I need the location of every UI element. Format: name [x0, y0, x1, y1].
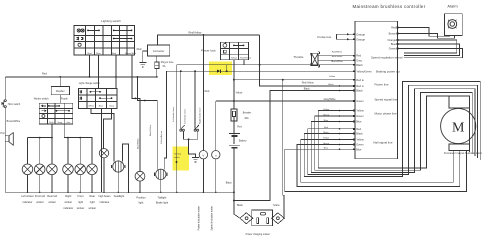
wire controller Black to battery minus	[234, 91, 355, 201]
junction controller black return	[233, 200, 235, 202]
wire hall Yellow	[301, 139, 453, 182]
svg-text:Mainstream brushless controlle: Mainstream brushless controller	[352, 4, 425, 9]
svg-text:Blue: Blue	[324, 148, 329, 150]
controller right pin squares	[397, 27, 399, 50]
brake lever switch S6 right	[194, 71, 199, 139]
wire charging socket feed	[283, 80, 284, 218]
svg-text:Yellow: Yellow	[231, 57, 238, 59]
wire high beam lamp to ground bus	[103, 158, 105, 192]
svg-text:Brown: Brown	[389, 32, 397, 36]
wire speed meter feed and Gray/White to controller	[216, 100, 355, 102]
svg-text:Green: Green	[323, 142, 330, 145]
wire alarm Orange return	[398, 40, 457, 53]
svg-text:winker: winker	[65, 200, 73, 204]
lamp front right winker	[75, 164, 86, 175]
svg-text:Green: Green	[323, 113, 330, 116]
junction fuse to red bus	[156, 76, 158, 78]
svg-text:Motor phase line: Motor phase line	[375, 112, 398, 116]
svg-text:Gray: Gray	[356, 58, 362, 62]
svg-text:Black: Black	[226, 182, 233, 185]
svg-text:Blue: Blue	[96, 53, 101, 55]
junction turning switch tap	[176, 161, 178, 163]
svg-text:Green: Green	[389, 47, 397, 51]
power charging socket J1	[240, 210, 284, 226]
svg-text:Speed indication meter: Speed indication meter	[210, 206, 213, 231]
wire winker right output	[64, 124, 92, 164]
node Red/Yellow top wire	[158, 35, 260, 45]
lamp labels	[21, 194, 124, 210]
svg-text:Black: Black	[237, 204, 244, 207]
svg-text:Front left: Front left	[35, 194, 46, 198]
flasher U3	[51, 86, 69, 94]
horn LS1	[5, 133, 13, 146]
wire lighting col2 to red bus	[89, 55, 91, 77]
svg-text:Left winker: Left winker	[21, 194, 34, 198]
wire left winker bus	[28, 138, 52, 164]
svg-text:Red/Yellow: Red/Yellow	[189, 31, 202, 35]
wire breaker to battery	[233, 121, 235, 133]
wire power lock output to node	[244, 60, 260, 65]
svg-text:White: White	[88, 104, 94, 107]
wire White to headlight left terminal	[91, 108, 114, 161]
winker switch S3 table	[39, 103, 72, 124]
svg-text:Power line: Power line	[375, 83, 389, 87]
junction right bus lamp5	[79, 137, 81, 139]
svg-text:30A: 30A	[244, 117, 249, 120]
lighting switch contact row1 left	[87, 30, 100, 32]
svg-text:Cruise low: Cruise low	[317, 35, 332, 39]
svg-text:Flasher: Flasher	[56, 89, 65, 93]
wire W2 left end to taillight right terminal	[164, 71, 166, 169]
brake lever switch S5 left	[180, 71, 185, 139]
wire W3 Red/Yellow to controller Red plus pin	[234, 79, 355, 81]
svg-text:Left brake lever: Left brake lever	[172, 107, 175, 122]
junction Brown/Red jog	[135, 98, 137, 100]
wire lamp5 feed	[79, 138, 81, 164]
controller left pin squares	[353, 33, 355, 150]
wire brake common to ground	[189, 139, 196, 157]
junction winker left bus	[51, 137, 53, 139]
horn switch S2	[2, 100, 6, 108]
svg-text:switch: switch	[174, 156, 181, 159]
svg-text:Black: Black	[356, 63, 363, 67]
wire taillight bottom to ground bus	[160, 180, 162, 193]
svg-text:Red: Red	[391, 26, 396, 30]
plug-in fuse F1 5A	[155, 56, 174, 77]
svg-text:Rear: Rear	[89, 194, 95, 198]
junction S6 on W2	[194, 70, 196, 72]
svg-text:Hall signal line: Hall signal line	[373, 140, 393, 144]
wire W1 lighting feed and throttle Black to controller	[177, 64, 355, 66]
svg-text:Winker switch: Winker switch	[34, 98, 49, 101]
cruise connector loop with arrows	[337, 34, 355, 39]
svg-text:Purple: Purple	[61, 98, 69, 101]
svg-text:indicator: indicator	[100, 200, 110, 204]
svg-text:Orange: Orange	[387, 38, 396, 42]
svg-text:M: M	[452, 121, 465, 136]
svg-text:Yellow/Brown: Yellow/Brown	[160, 130, 163, 144]
svg-text:Yellow: Yellow	[323, 138, 330, 140]
wire horn switch to ground bus	[4, 108, 6, 193]
wire W1 branch to diode	[226, 65, 228, 72]
svg-text:Horn switch: Horn switch	[8, 103, 21, 106]
winker off symbol	[42, 115, 45, 118]
svg-text:Black/White: Black/White	[331, 60, 343, 63]
lamp high beam indicator	[99, 149, 108, 158]
junction brake common	[188, 138, 190, 140]
junction battery plus meter tap	[233, 100, 235, 102]
svg-text:Breaker: Breaker	[243, 112, 252, 115]
ground converter	[139, 63, 146, 68]
junction dots on ground bus	[27, 192, 217, 194]
junction battery plus W3 tap	[233, 79, 235, 81]
svg-text:Right brake lever: Right brake lever	[199, 107, 202, 124]
svg-text:Green: Green	[356, 99, 364, 103]
lighting switch lamp symbol row2	[77, 37, 84, 40]
lamp right winker indicator	[63, 164, 74, 175]
wire hall Black	[304, 82, 480, 177]
lighting switch contact row2	[113, 38, 133, 40]
diode D1	[217, 70, 220, 73]
svg-text:Red/White: Red/White	[332, 50, 343, 53]
lamp left winker indicator	[22, 164, 33, 175]
svg-text:right: right	[78, 200, 83, 204]
junction connector dots on controller wires	[339, 85, 341, 150]
svg-text:Yellow: Yellow	[235, 92, 242, 95]
power lock contact row1	[233, 45, 244, 47]
wire battery minus down to socket	[234, 149, 240, 219]
svg-text:Orange: Orange	[356, 37, 365, 41]
junction left bus lamp2	[39, 137, 41, 139]
svg-text:winker: winker	[89, 206, 97, 210]
mainstream brushless controller U1	[355, 21, 398, 159]
svg-text:Lighting switch: Lighting switch	[101, 19, 121, 23]
svg-text:Speed signal line: Speed signal line	[375, 98, 398, 102]
svg-text:Red: Red	[205, 89, 210, 93]
wire alarm Brown	[398, 34, 455, 39]
wire power lock yellow to breaker	[233, 60, 235, 109]
power lock off symbol	[224, 50, 227, 53]
wire lamp2 feed	[39, 138, 41, 164]
breaker CB1	[231, 109, 237, 121]
wire taillight left terminal to red bus	[137, 77, 157, 170]
lighting switch contact row1 right	[113, 30, 133, 32]
svg-text:Blue: Blue	[391, 42, 397, 46]
highlight yellow box around diode D1	[209, 62, 232, 75]
svg-text:Red: Red	[137, 47, 142, 51]
svg-text:Red ⊕: Red ⊕	[356, 78, 364, 82]
wire brake levers common	[183, 138, 197, 140]
wire position lamp to ground bus	[139, 181, 141, 192]
svg-text:Brown/White: Brown/White	[7, 120, 21, 123]
wire Brown/Red to position lamp	[132, 55, 140, 171]
wire lamp4 feed	[67, 138, 69, 164]
svg-text:Blue/Yellow: Blue/Yellow	[150, 124, 152, 136]
svg-text:Yellow: Yellow	[273, 204, 280, 207]
voltmeter P1	[199, 151, 207, 159]
svg-text:headlight: headlight	[114, 194, 125, 198]
light change low beam symbol	[80, 97, 82, 100]
svg-text:Front: Front	[77, 194, 83, 198]
svg-text:Green: Green	[356, 143, 364, 147]
svg-text:Red ⊖: Red ⊖	[356, 84, 364, 88]
junction taillight feed mid	[144, 100, 146, 102]
svg-text:V: V	[202, 153, 204, 157]
junction power lock output node	[259, 64, 261, 66]
svg-text:Yellow: Yellow	[356, 138, 364, 142]
wire power lock net down to controller Red minus pin	[260, 35, 355, 86]
junction right bus lamp4	[67, 137, 69, 139]
svg-text:Red: Red	[237, 126, 242, 129]
lighting switch headlight symbol row1	[77, 29, 84, 32]
svg-text:Black: Black	[356, 132, 363, 136]
converter U2	[147, 45, 169, 56]
svg-text:Red: Red	[356, 54, 361, 58]
wire flasher top	[59, 77, 61, 87]
throttle wires to controller	[318, 56, 355, 61]
wire headlight right terminal loop	[123, 144, 129, 192]
svg-text:Red/Yellow: Red/Yellow	[240, 57, 251, 59]
wire ground bus	[5, 191, 234, 193]
wire Red feed down to voltmeter	[202, 35, 204, 150]
wire alarm Blue return	[398, 44, 460, 55]
svg-text:Brake light: Brake light	[156, 201, 169, 205]
svg-text:winker: winker	[48, 200, 56, 204]
svg-text:Turning: Turning	[174, 153, 182, 156]
wire alarm Green return	[398, 49, 463, 58]
svg-text:Plug-in fuse: Plug-in fuse	[161, 61, 174, 64]
lamp front left winker	[34, 164, 45, 175]
lighting switch S1 table	[74, 26, 135, 56]
wire red bus	[5, 76, 157, 78]
wire alarm Red	[398, 28, 450, 37]
svg-text:Blue: Blue	[99, 105, 104, 107]
svg-text:Yellow: Yellow	[329, 76, 336, 78]
wire Blue to ground bus	[101, 108, 103, 192]
svg-text:Battery: Battery	[239, 139, 247, 142]
ground brake levers	[192, 158, 199, 163]
power lock key symbol	[223, 43, 227, 48]
wire red bus drop to horn switch	[4, 77, 6, 99]
svg-text:Green: Green	[356, 114, 364, 118]
wires lamp bottoms to ground bus	[28, 175, 93, 193]
headlight E1	[112, 161, 125, 172]
lamp rear right winker	[87, 164, 98, 175]
winker contact row1	[48, 105, 60, 107]
svg-text:Rear left: Rear left	[47, 194, 57, 198]
controller right pin labels	[387, 26, 396, 51]
svg-text:right: right	[90, 200, 95, 204]
motor M1	[441, 96, 476, 151]
wire speedmeter top	[215, 101, 217, 151]
junction red bus flasher	[59, 76, 61, 78]
wire flasher to winker switch	[59, 95, 61, 104]
svg-text:Gray/White: Gray/White	[324, 98, 337, 101]
light change high beam symbol	[80, 90, 82, 93]
svg-text:Blue: Blue	[356, 147, 362, 151]
svg-text:Power charging socket: Power charging socket	[246, 233, 271, 236]
svg-text:Red: Red	[42, 71, 47, 75]
svg-text:Yellow/Green: Yellow/Green	[356, 69, 372, 73]
wire motor phase Yellow	[318, 96, 469, 168]
svg-text:Power indication meter: Power indication meter	[197, 206, 200, 231]
svg-text:Horn: Horn	[0, 132, 6, 135]
svg-text:winker: winker	[36, 200, 44, 204]
lamp rear left winker	[47, 164, 58, 175]
svg-text:high beam: high beam	[98, 194, 110, 198]
controller signal group labels	[371, 55, 403, 144]
wire winker left output	[51, 124, 53, 164]
svg-text:light: light	[139, 201, 144, 205]
svg-text:Position: Position	[136, 195, 146, 199]
svg-text:Permanent magnet brushless mot: Permanent magnet brushless motor	[444, 152, 482, 155]
wire lighting col5 to light change switch	[115, 55, 117, 89]
svg-text:Red/Yellow: Red/Yellow	[302, 81, 314, 84]
svg-text:Black: Black	[356, 89, 363, 93]
svg-text:Alarm: Alarm	[447, 4, 457, 9]
wire hall Red	[308, 85, 478, 174]
wire converter to ground	[143, 51, 148, 63]
svg-text:Red: Red	[356, 127, 361, 131]
light change switch S4 table	[79, 89, 117, 109]
wire headlight bottom	[117, 172, 119, 192]
svg-text:Blue: Blue	[356, 120, 362, 124]
svg-text:Black: Black	[304, 88, 311, 91]
junction red bus lighting col2	[89, 76, 91, 78]
light change contact row1	[90, 91, 101, 93]
highlight yellow box around turning switch	[173, 146, 190, 170]
svg-text:Black: Black	[328, 84, 334, 86]
power lock S7 table	[221, 42, 249, 59]
wire Gray to high beam lamp	[104, 108, 112, 148]
svg-text:Converter: Converter	[153, 49, 165, 53]
wire lighting col3 to light change switch	[98, 55, 100, 89]
svg-text:Braking power cut: Braking power cut	[376, 70, 400, 74]
wire hall Green	[297, 145, 460, 187]
wire motor phase Blue	[311, 89, 475, 173]
lighting switch off symbol row3	[78, 43, 81, 46]
lamp position light	[135, 171, 145, 181]
wire W2 brake net to controller Yellow/Green pin	[167, 70, 355, 72]
controller left pin labels	[356, 32, 372, 151]
svg-text:5A: 5A	[163, 65, 166, 68]
junction W2 diode branch	[226, 70, 228, 72]
wires meters to ground bus	[203, 159, 215, 192]
junction W3 charging socket branch	[282, 79, 284, 81]
wire W1 drop through turning switch to ground bus	[176, 65, 178, 193]
throttle R1	[310, 52, 319, 67]
svg-text:Taillight: Taillight	[158, 195, 167, 199]
svg-text:Light change switch: Light change switch	[79, 82, 101, 85]
svg-text:Throttle: Throttle	[293, 55, 304, 59]
svg-text:Power lock: Power lock	[201, 49, 216, 53]
junction S5 on W2	[180, 70, 182, 72]
svg-text:Orange: Orange	[356, 32, 365, 36]
svg-text:Left brake lever: Left brake lever	[183, 109, 186, 124]
junction ground bus to battery minus	[233, 191, 235, 193]
svg-text:Right: Right	[65, 194, 71, 198]
winker contact row2	[56, 110, 70, 112]
taillight E2	[155, 169, 167, 179]
light change contact row2	[99, 97, 112, 99]
junction taillight feed on red bus	[137, 76, 139, 78]
speedmeter P2	[212, 151, 220, 159]
svg-text:Yellow: Yellow	[356, 109, 364, 113]
svg-text:Blue/White: Blue/White	[137, 138, 140, 149]
junction lighting col5 on red bus	[115, 76, 117, 78]
battery BT1	[229, 133, 240, 147]
wire hall Blue	[285, 149, 467, 191]
wire motor phase Green	[315, 92, 472, 170]
svg-text:Black: Black	[323, 132, 329, 134]
svg-text:Blue/White: Blue/White	[332, 55, 343, 58]
junction Red/Yellow to meters feed	[203, 34, 205, 36]
svg-text:Brown/Red: Brown/Red	[125, 52, 137, 55]
svg-text:Speed regulation signal: Speed regulation signal	[371, 55, 403, 59]
svg-text:winker: winker	[77, 206, 85, 210]
alarm A1 box	[445, 14, 463, 36]
svg-text:Blue: Blue	[324, 120, 329, 122]
svg-text:indicator: indicator	[63, 206, 73, 210]
svg-text:indicator: indicator	[23, 200, 33, 204]
external motor wire labels	[323, 109, 330, 150]
winker right arrow symbol	[42, 110, 46, 112]
svg-text:Yellow: Yellow	[323, 109, 330, 111]
winker left arrow symbol	[42, 105, 46, 107]
